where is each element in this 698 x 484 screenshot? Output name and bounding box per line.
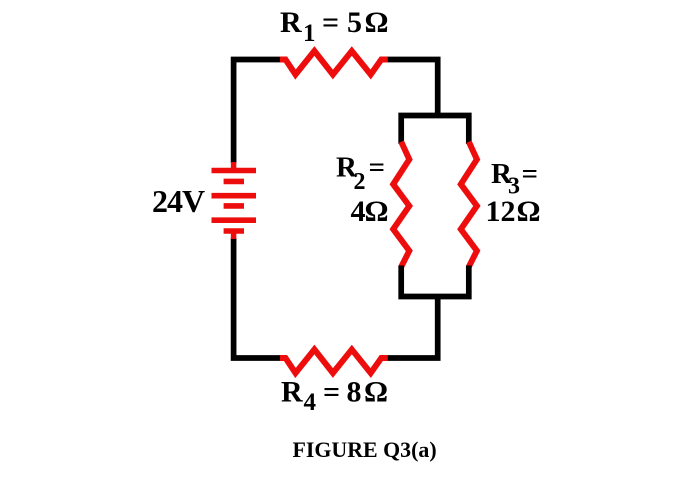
battery plate 4 (short) [224, 203, 244, 209]
battery bottom red stub [231, 231, 237, 239]
wire: top-right L segment (R1 right lead to top-right corner down to parallel box top) [387, 60, 438, 117]
node: bottom junction of parallel box [401, 266, 469, 297]
resistor R3 (12 ohm, vertical zigzag, right parallel branch) [461, 142, 477, 267]
battery plate 5 (long) [212, 217, 257, 223]
svg-text:24V: 24V [152, 183, 205, 219]
wire: left-bottom L segment (battery bottom to bottom-left corner to R4 left lead) [234, 238, 282, 358]
resistor R1 (5 ohm, horizontal zigzag, top wire) [280, 51, 388, 75]
battery plate 2 (short) [224, 179, 244, 185]
battery plate 1 (long) [212, 168, 257, 174]
resistor R2 (4 ohm, vertical zigzag, left parallel branch) [393, 142, 409, 267]
svg-text:R2=: R2= [336, 151, 385, 194]
svg-text:12Ω: 12Ω [486, 195, 541, 228]
wire: stub from parallel box bottom down to bottom wire [387, 297, 438, 359]
resistor R4 (8 ohm, horizontal zigzag, bottom wire) [280, 350, 388, 374]
node: top junction of parallel box [401, 116, 469, 145]
svg-text:R1=5Ω: R1=5Ω [280, 6, 389, 47]
wire: left-top L segment (battery top to top-left corner to R1 left lead) [234, 60, 282, 164]
battery V1 24V : top red stub [231, 162, 237, 171]
svg-text:R3=: R3= [491, 158, 538, 200]
svg-text:4Ω: 4Ω [351, 195, 389, 228]
svg-text:FIGURE Q3(a): FIGURE Q3(a) [293, 437, 437, 462]
battery plate 3 (long) [212, 193, 257, 199]
battery plate 6 (short) [224, 228, 244, 234]
svg-text:R4=8Ω: R4=8Ω [281, 376, 388, 417]
